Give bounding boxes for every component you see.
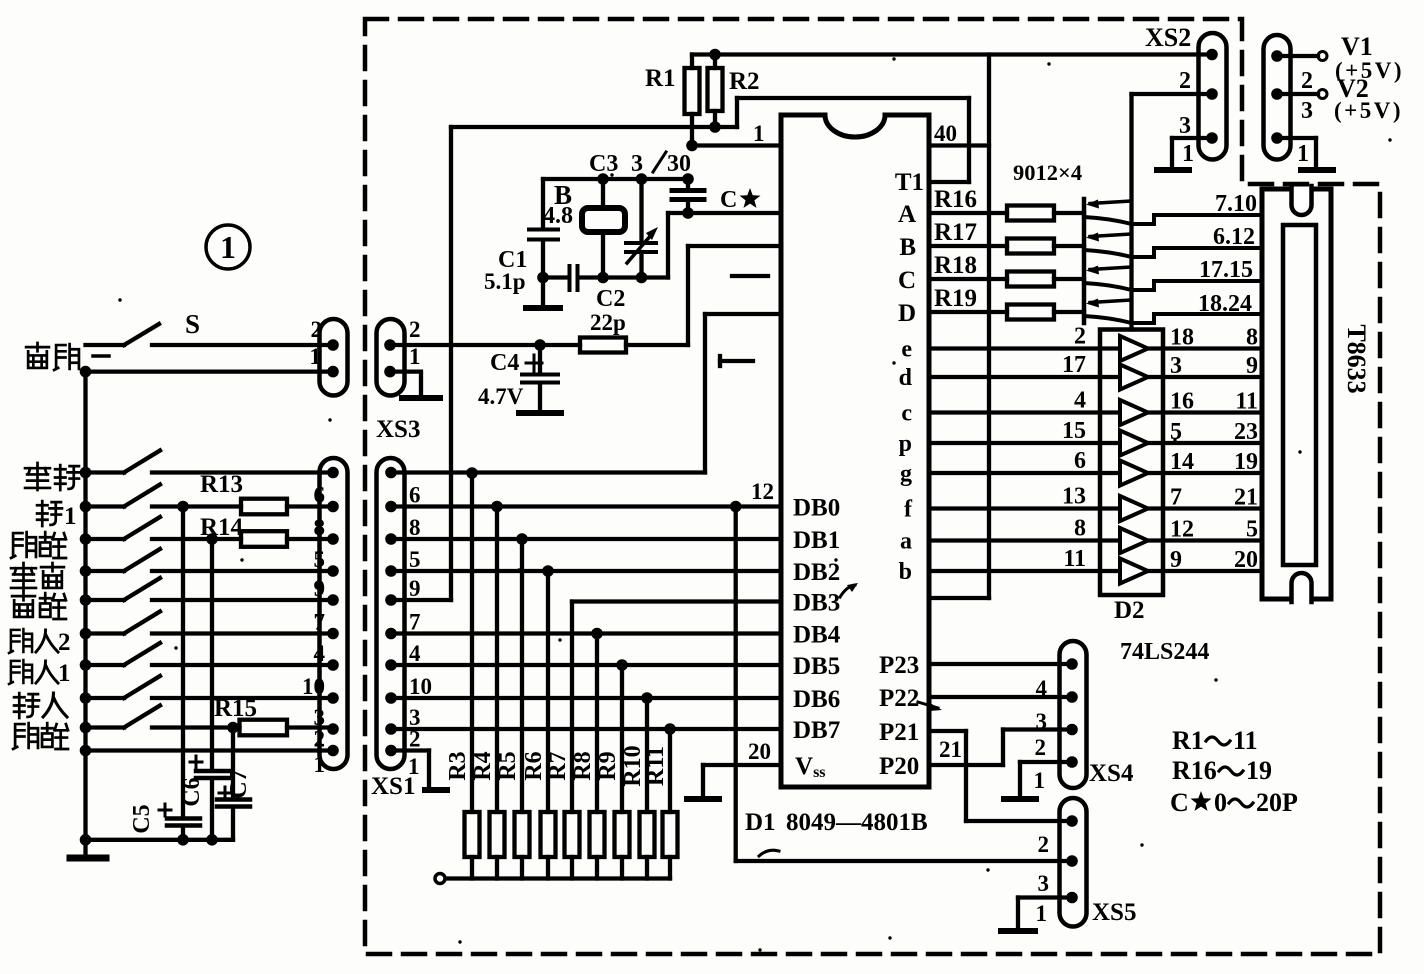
- svg-text:6: 6: [1074, 448, 1086, 474]
- svg-text:e: e: [901, 337, 912, 363]
- svg-text:11: 11: [1063, 546, 1086, 572]
- svg-text:12: 12: [1170, 517, 1194, 543]
- svg-text:4: 4: [1036, 676, 1048, 701]
- svg-text:8: 8: [1246, 325, 1258, 351]
- svg-text:0: 0: [1214, 788, 1227, 817]
- svg-text:9: 9: [314, 576, 326, 601]
- svg-text:10: 10: [409, 674, 432, 699]
- svg-text:6: 6: [314, 483, 326, 508]
- svg-text:1: 1: [1297, 141, 1309, 167]
- svg-text:p: p: [899, 431, 912, 457]
- svg-text:d: d: [899, 365, 913, 391]
- svg-text:30: 30: [667, 151, 691, 177]
- svg-text:9: 9: [1246, 353, 1258, 379]
- svg-text:9012×4: 9012×4: [1013, 160, 1082, 185]
- svg-text:22p: 22p: [590, 310, 626, 335]
- svg-text:4.8: 4.8: [543, 203, 573, 229]
- svg-text:16: 16: [1170, 389, 1194, 415]
- svg-text:DB3: DB3: [793, 590, 840, 617]
- svg-text:3: 3: [631, 151, 643, 177]
- svg-text:P20: P20: [879, 753, 919, 780]
- svg-text:9: 9: [1170, 547, 1182, 573]
- svg-text:P22: P22: [879, 685, 919, 712]
- svg-text:18: 18: [1170, 325, 1194, 351]
- svg-text:13: 13: [1062, 484, 1086, 510]
- svg-text:D: D: [898, 300, 916, 327]
- svg-text:2: 2: [1038, 832, 1050, 857]
- svg-text:R14: R14: [200, 514, 244, 541]
- svg-text:DB7: DB7: [793, 717, 840, 744]
- svg-text:R2: R2: [729, 68, 760, 95]
- svg-text:1: 1: [409, 344, 421, 369]
- svg-text:17: 17: [1062, 352, 1086, 378]
- svg-text:a: a: [900, 529, 912, 555]
- svg-text:2: 2: [1074, 324, 1086, 350]
- svg-text:R1: R1: [1172, 726, 1204, 755]
- svg-text:11: 11: [1233, 726, 1258, 755]
- svg-text:T1: T1: [895, 169, 924, 196]
- svg-text:6: 6: [409, 483, 421, 508]
- svg-text:C5: C5: [129, 804, 155, 833]
- svg-text:20: 20: [748, 739, 771, 764]
- svg-text:1: 1: [1034, 768, 1046, 793]
- svg-text:5: 5: [314, 547, 326, 572]
- svg-text:21: 21: [1234, 485, 1258, 511]
- svg-text:R11: R11: [643, 746, 669, 786]
- svg-text:(+5V): (+5V): [1334, 98, 1403, 123]
- svg-text:R13: R13: [200, 471, 243, 498]
- svg-text:5: 5: [1246, 517, 1258, 543]
- svg-text:R17: R17: [934, 219, 977, 246]
- svg-text:15: 15: [1062, 418, 1086, 444]
- svg-text:R16: R16: [1172, 756, 1217, 785]
- svg-text:40: 40: [934, 121, 957, 146]
- svg-text:9: 9: [409, 576, 421, 601]
- svg-text:4.7V: 4.7V: [478, 384, 524, 409]
- svg-text:C: C: [898, 267, 916, 294]
- svg-text:f: f: [904, 497, 913, 523]
- svg-text:R6: R6: [521, 751, 547, 780]
- svg-text:4: 4: [409, 641, 421, 666]
- svg-text:C7: C7: [226, 769, 252, 798]
- svg-text:b: b: [899, 559, 912, 585]
- svg-text:4: 4: [314, 641, 326, 666]
- svg-text:DB1: DB1: [793, 527, 840, 554]
- svg-text:DB2: DB2: [793, 559, 840, 586]
- svg-text:8: 8: [314, 515, 326, 540]
- svg-text:1: 1: [1036, 901, 1048, 926]
- svg-text:19: 19: [1234, 449, 1258, 475]
- svg-text:R9: R9: [595, 751, 621, 780]
- svg-text:2: 2: [58, 629, 71, 656]
- svg-text:8: 8: [409, 515, 421, 540]
- svg-text:21: 21: [939, 737, 962, 762]
- svg-text:14: 14: [1170, 449, 1194, 475]
- svg-text:c: c: [901, 401, 912, 427]
- svg-text:23: 23: [1234, 419, 1258, 445]
- svg-text:S: S: [185, 309, 200, 339]
- svg-text:1: 1: [58, 660, 71, 687]
- svg-text:7.10: 7.10: [1215, 191, 1257, 217]
- svg-text:R3: R3: [445, 751, 471, 780]
- svg-text:R19: R19: [934, 285, 977, 312]
- svg-text:DB0: DB0: [793, 495, 840, 522]
- svg-text:D2: D2: [1114, 597, 1145, 624]
- svg-text:R8: R8: [570, 751, 596, 780]
- svg-text:2: 2: [1035, 735, 1047, 760]
- svg-text:7: 7: [314, 610, 326, 635]
- svg-text:5: 5: [409, 547, 421, 572]
- svg-text:8049—4801B: 8049—4801B: [786, 809, 928, 836]
- svg-text:2: 2: [409, 317, 421, 342]
- svg-text:XS2: XS2: [1145, 23, 1191, 52]
- svg-text:2: 2: [311, 317, 323, 342]
- svg-text:19: 19: [1246, 756, 1272, 785]
- svg-text:XS5: XS5: [1092, 899, 1136, 926]
- svg-text:7: 7: [409, 610, 421, 635]
- svg-text:2: 2: [409, 727, 421, 752]
- svg-text:g: g: [900, 461, 912, 487]
- svg-text:P21: P21: [879, 719, 919, 746]
- svg-text:C3: C3: [589, 151, 618, 177]
- svg-text:R1: R1: [645, 65, 676, 92]
- svg-text:20: 20: [1234, 547, 1258, 573]
- svg-text:1: 1: [1182, 141, 1194, 167]
- svg-text:1: 1: [64, 503, 77, 530]
- svg-text:3: 3: [1170, 353, 1182, 379]
- svg-text:12: 12: [751, 479, 774, 504]
- svg-text:R18: R18: [934, 252, 977, 279]
- svg-text:3: 3: [1301, 98, 1313, 124]
- svg-text:10: 10: [302, 674, 325, 699]
- svg-text:1: 1: [310, 344, 322, 369]
- svg-text:XS4: XS4: [1089, 760, 1134, 787]
- svg-text:DB5: DB5: [793, 653, 840, 680]
- svg-text:8: 8: [1074, 516, 1086, 542]
- svg-text:C2: C2: [596, 286, 625, 312]
- svg-text:D1: D1: [745, 809, 776, 836]
- svg-text:1: 1: [220, 229, 236, 265]
- svg-text:DB4: DB4: [793, 622, 841, 649]
- svg-text:3: 3: [1038, 871, 1050, 896]
- svg-text:C: C: [1170, 788, 1189, 817]
- svg-text:7: 7: [1170, 485, 1182, 511]
- svg-text:V1: V1: [1341, 32, 1373, 61]
- svg-text:2: 2: [1179, 68, 1191, 94]
- svg-text:P23: P23: [879, 652, 919, 679]
- svg-text:R5: R5: [495, 751, 521, 780]
- svg-text:T8633: T8633: [1342, 324, 1371, 393]
- svg-text:A: A: [898, 201, 916, 228]
- svg-text:20P: 20P: [1256, 788, 1298, 817]
- svg-text:11: 11: [1235, 389, 1258, 415]
- svg-text:C: C: [720, 187, 737, 213]
- svg-text:5.1p: 5.1p: [484, 269, 526, 294]
- svg-text:3: 3: [1036, 709, 1048, 734]
- svg-text:R4: R4: [470, 751, 496, 780]
- svg-text:6.12: 6.12: [1213, 224, 1255, 250]
- svg-text:R16: R16: [934, 186, 977, 213]
- svg-text:2: 2: [1301, 68, 1313, 94]
- svg-text:B: B: [899, 234, 916, 261]
- svg-text:74LS244: 74LS244: [1120, 639, 1209, 665]
- svg-text:R7: R7: [545, 751, 571, 780]
- svg-text:C4: C4: [490, 350, 519, 376]
- svg-text:XS3: XS3: [376, 416, 420, 443]
- svg-text:2: 2: [314, 727, 326, 752]
- svg-text:1: 1: [314, 752, 326, 777]
- svg-text:R15: R15: [214, 695, 257, 722]
- svg-text:DB6: DB6: [793, 686, 840, 713]
- svg-text:C6: C6: [179, 777, 205, 806]
- svg-text:3: 3: [1179, 113, 1191, 139]
- svg-text:17.15: 17.15: [1199, 257, 1253, 283]
- svg-text:4: 4: [1074, 388, 1086, 414]
- svg-text:1: 1: [753, 121, 765, 146]
- svg-text:XS1: XS1: [371, 773, 415, 800]
- svg-text:18.24: 18.24: [1198, 291, 1252, 317]
